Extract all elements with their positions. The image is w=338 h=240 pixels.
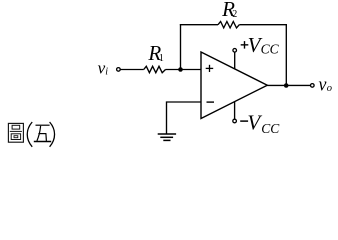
output terminal circle (vo) [311, 84, 315, 88]
input terminal circle (vi) [117, 68, 121, 72]
svg-text:i: i [105, 67, 108, 78]
label R1 [147, 41, 164, 65]
power terminal +VCC circle and pin [233, 49, 237, 70]
node A junction dot (R1 / feedback / + input) [178, 67, 183, 72]
ground [158, 134, 176, 140]
wire - input to ground stub [167, 102, 202, 134]
op-amp U1 triangle [201, 52, 267, 119]
wire top left segment [180, 24, 218, 26]
op-amp + input marker [206, 65, 214, 72]
wire output [267, 84, 310, 86]
figure caption: character 五 drawn as strokes [34, 125, 51, 141]
figure caption: opening paren ( [27, 122, 32, 147]
resistor R1 [144, 66, 166, 72]
node B output junction dot [284, 83, 289, 88]
op-amp - input marker [207, 101, 215, 103]
wire top right segment [239, 24, 287, 26]
figure caption: character 圖 drawn as strokes [8, 123, 23, 142]
wire feedback right leg [285, 24, 287, 85]
wire feedback left leg [180, 24, 182, 69]
wire R1 to op-amp + input [166, 69, 202, 71]
svg-text:1: 1 [159, 53, 164, 64]
svg-text:o: o [327, 83, 332, 94]
svg-text:CC: CC [261, 121, 280, 136]
label -VCC [240, 110, 280, 136]
svg-text:V: V [247, 110, 262, 134]
label vi [98, 59, 109, 78]
svg-text:v: v [319, 74, 327, 95]
figure caption: closing paren ) [50, 122, 55, 147]
svg-text:2: 2 [232, 9, 237, 20]
label +VCC [241, 33, 280, 57]
label vo [319, 74, 333, 95]
wire input to R1 [120, 69, 143, 71]
power terminal -VCC pin and circle [233, 101, 237, 122]
label R2 [221, 0, 237, 21]
resistor R2 [218, 22, 239, 28]
svg-text:CC: CC [261, 41, 280, 56]
